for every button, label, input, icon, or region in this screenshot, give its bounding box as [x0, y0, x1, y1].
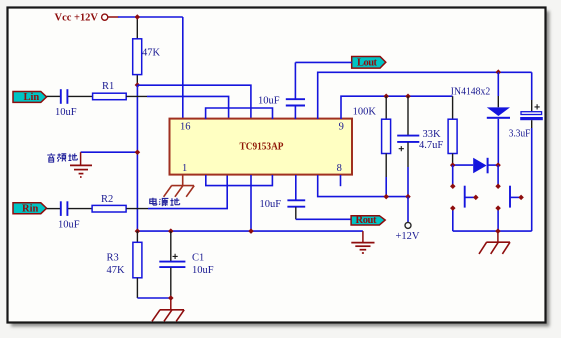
junction bottom right ground [495, 228, 501, 234]
svg-text:R1: R1 [102, 81, 114, 92]
capacitor 4.7uF polarized [397, 96, 443, 196]
svg-text:R2: R2 [101, 194, 113, 205]
capacitor 10uF (Rin) [58, 201, 80, 230]
svg-text:47K: 47K [142, 47, 161, 58]
junction diode row right [495, 162, 501, 168]
svg-text:Rin: Rin [22, 203, 39, 214]
capacitor 10uF (pin 6 to Rout) [260, 175, 306, 219]
node 电源地 label [150, 198, 180, 206]
wire pin15 to pin12 loop [206, 108, 273, 119]
+12V terminal [396, 197, 420, 243]
svg-text:Lout: Lout [357, 58, 378, 69]
svg-text:8: 8 [337, 163, 342, 174]
wire node A down column [136, 85, 138, 231]
pin 8 stub [340, 175, 342, 186]
wire node A to pin 13 [137, 85, 251, 119]
wire Lout to capacitor [295, 61, 351, 63]
resistor R1 [93, 81, 127, 100]
ground (bottom left) [152, 298, 184, 321]
node A junction (47K bottom) [135, 82, 141, 88]
wire Lin to capacitor [47, 95, 60, 97]
wire R2 to pin 3 [126, 175, 227, 209]
switch S1 (push button) [450, 183, 479, 210]
capacitor 10uF (pin11 to Lout) [258, 62, 305, 119]
svg-text:Vcc +12V: Vcc +12V [55, 12, 99, 23]
wire pin 16 vertical [182, 17, 184, 119]
diode D2 (horizontal) [473, 158, 488, 174]
resistor 47K body [133, 39, 161, 75]
junction pin7-4.7uF [405, 194, 411, 200]
port Rout [351, 215, 385, 226]
wire right switch column [497, 165, 499, 231]
Vcc +12V power terminal [55, 12, 119, 23]
svg-text:+12V: +12V [396, 231, 420, 242]
diode D1 (vertical) [487, 72, 510, 165]
node 音频地 label [47, 153, 77, 162]
wire capacitor to R2 [68, 208, 92, 210]
wire R3-C1 bottom [137, 297, 170, 299]
wire diode row [453, 164, 499, 166]
port Lin [13, 92, 47, 104]
svg-text:4.7uF: 4.7uF [419, 140, 443, 151]
svg-text:IN4148x2: IN4148x2 [451, 86, 491, 97]
wire pin 7 rail [318, 175, 408, 197]
junction ground rail R3 [135, 228, 141, 234]
node A junction (Vcc line) [135, 14, 141, 20]
junction pin9-100K [383, 93, 389, 99]
op chip U1 TC9153AP [170, 119, 353, 175]
junction ground rail pin4 [248, 228, 254, 234]
wire pin 2 to pin 5 loop [206, 175, 273, 186]
svg-text:10uF: 10uF [258, 95, 280, 106]
wire pin 9 rail [341, 96, 453, 119]
svg-text:100K: 100K [353, 106, 377, 117]
svg-text:10uF: 10uF [260, 199, 282, 210]
capacitor 3.3uF [509, 72, 543, 231]
resistor R2 [92, 194, 126, 212]
svg-text:10uF: 10uF [192, 265, 214, 276]
resistor R (47K top) leads [136, 17, 138, 85]
svg-text:C1: C1 [192, 253, 204, 264]
svg-text:47K: 47K [107, 265, 126, 276]
port Lout [352, 57, 386, 69]
wire pin 4 column [250, 175, 252, 231]
junction diode row left [450, 162, 456, 168]
junction bottom ground [168, 295, 174, 301]
wire left switch column [452, 165, 454, 231]
svg-text:TC9153AP: TC9153AP [240, 140, 284, 152]
ground (center, earth bars) [351, 231, 374, 253]
capacitor 10uF (Lin) [55, 89, 77, 118]
wire Vcc to pin16 column [118, 16, 183, 18]
wire bottom right rail [453, 230, 532, 232]
switch S2 (push button) [495, 183, 524, 210]
wire R1 to pin 14 [126, 96, 228, 119]
svg-text:R3: R3 [107, 253, 119, 264]
wire to Rout [296, 218, 351, 220]
ground (power, under pin1) [164, 186, 195, 197]
svg-text:16: 16 [180, 122, 191, 133]
capacitor C1 10uF polarized [159, 231, 213, 298]
svg-text:10uF: 10uF [55, 107, 77, 118]
ground (bottom right) [479, 231, 510, 254]
svg-text:33K: 33K [423, 129, 442, 140]
svg-text:10uF: 10uF [58, 219, 80, 230]
svg-text:9: 9 [339, 122, 344, 133]
pin 1 stub [182, 175, 184, 186]
resistor 100K [353, 96, 391, 196]
wire capacitor to R1 [68, 95, 92, 97]
wire audio-ground tap [81, 149, 141, 155]
svg-text:1: 1 [182, 163, 187, 174]
junction pin9-4.7uF [405, 93, 411, 99]
junction ground rail C1 [168, 228, 174, 234]
svg-text:Rout: Rout [356, 215, 378, 226]
svg-text:Lin: Lin [24, 92, 40, 103]
ground (audio) symbol [70, 152, 92, 177]
wire pin 10 to top-right rail [318, 72, 532, 119]
label IN4148x2 [451, 86, 491, 97]
junction pin10 rail - diode column [496, 69, 502, 75]
wire Rin to capacitor [47, 208, 60, 210]
port Rin [13, 203, 47, 215]
svg-text:3.3uF: 3.3uF [509, 129, 531, 140]
junction pin7-100K [383, 194, 389, 200]
wire ground rail (center) [137, 230, 363, 232]
resistor 33K [448, 96, 457, 165]
resistor R3 [107, 231, 142, 298]
